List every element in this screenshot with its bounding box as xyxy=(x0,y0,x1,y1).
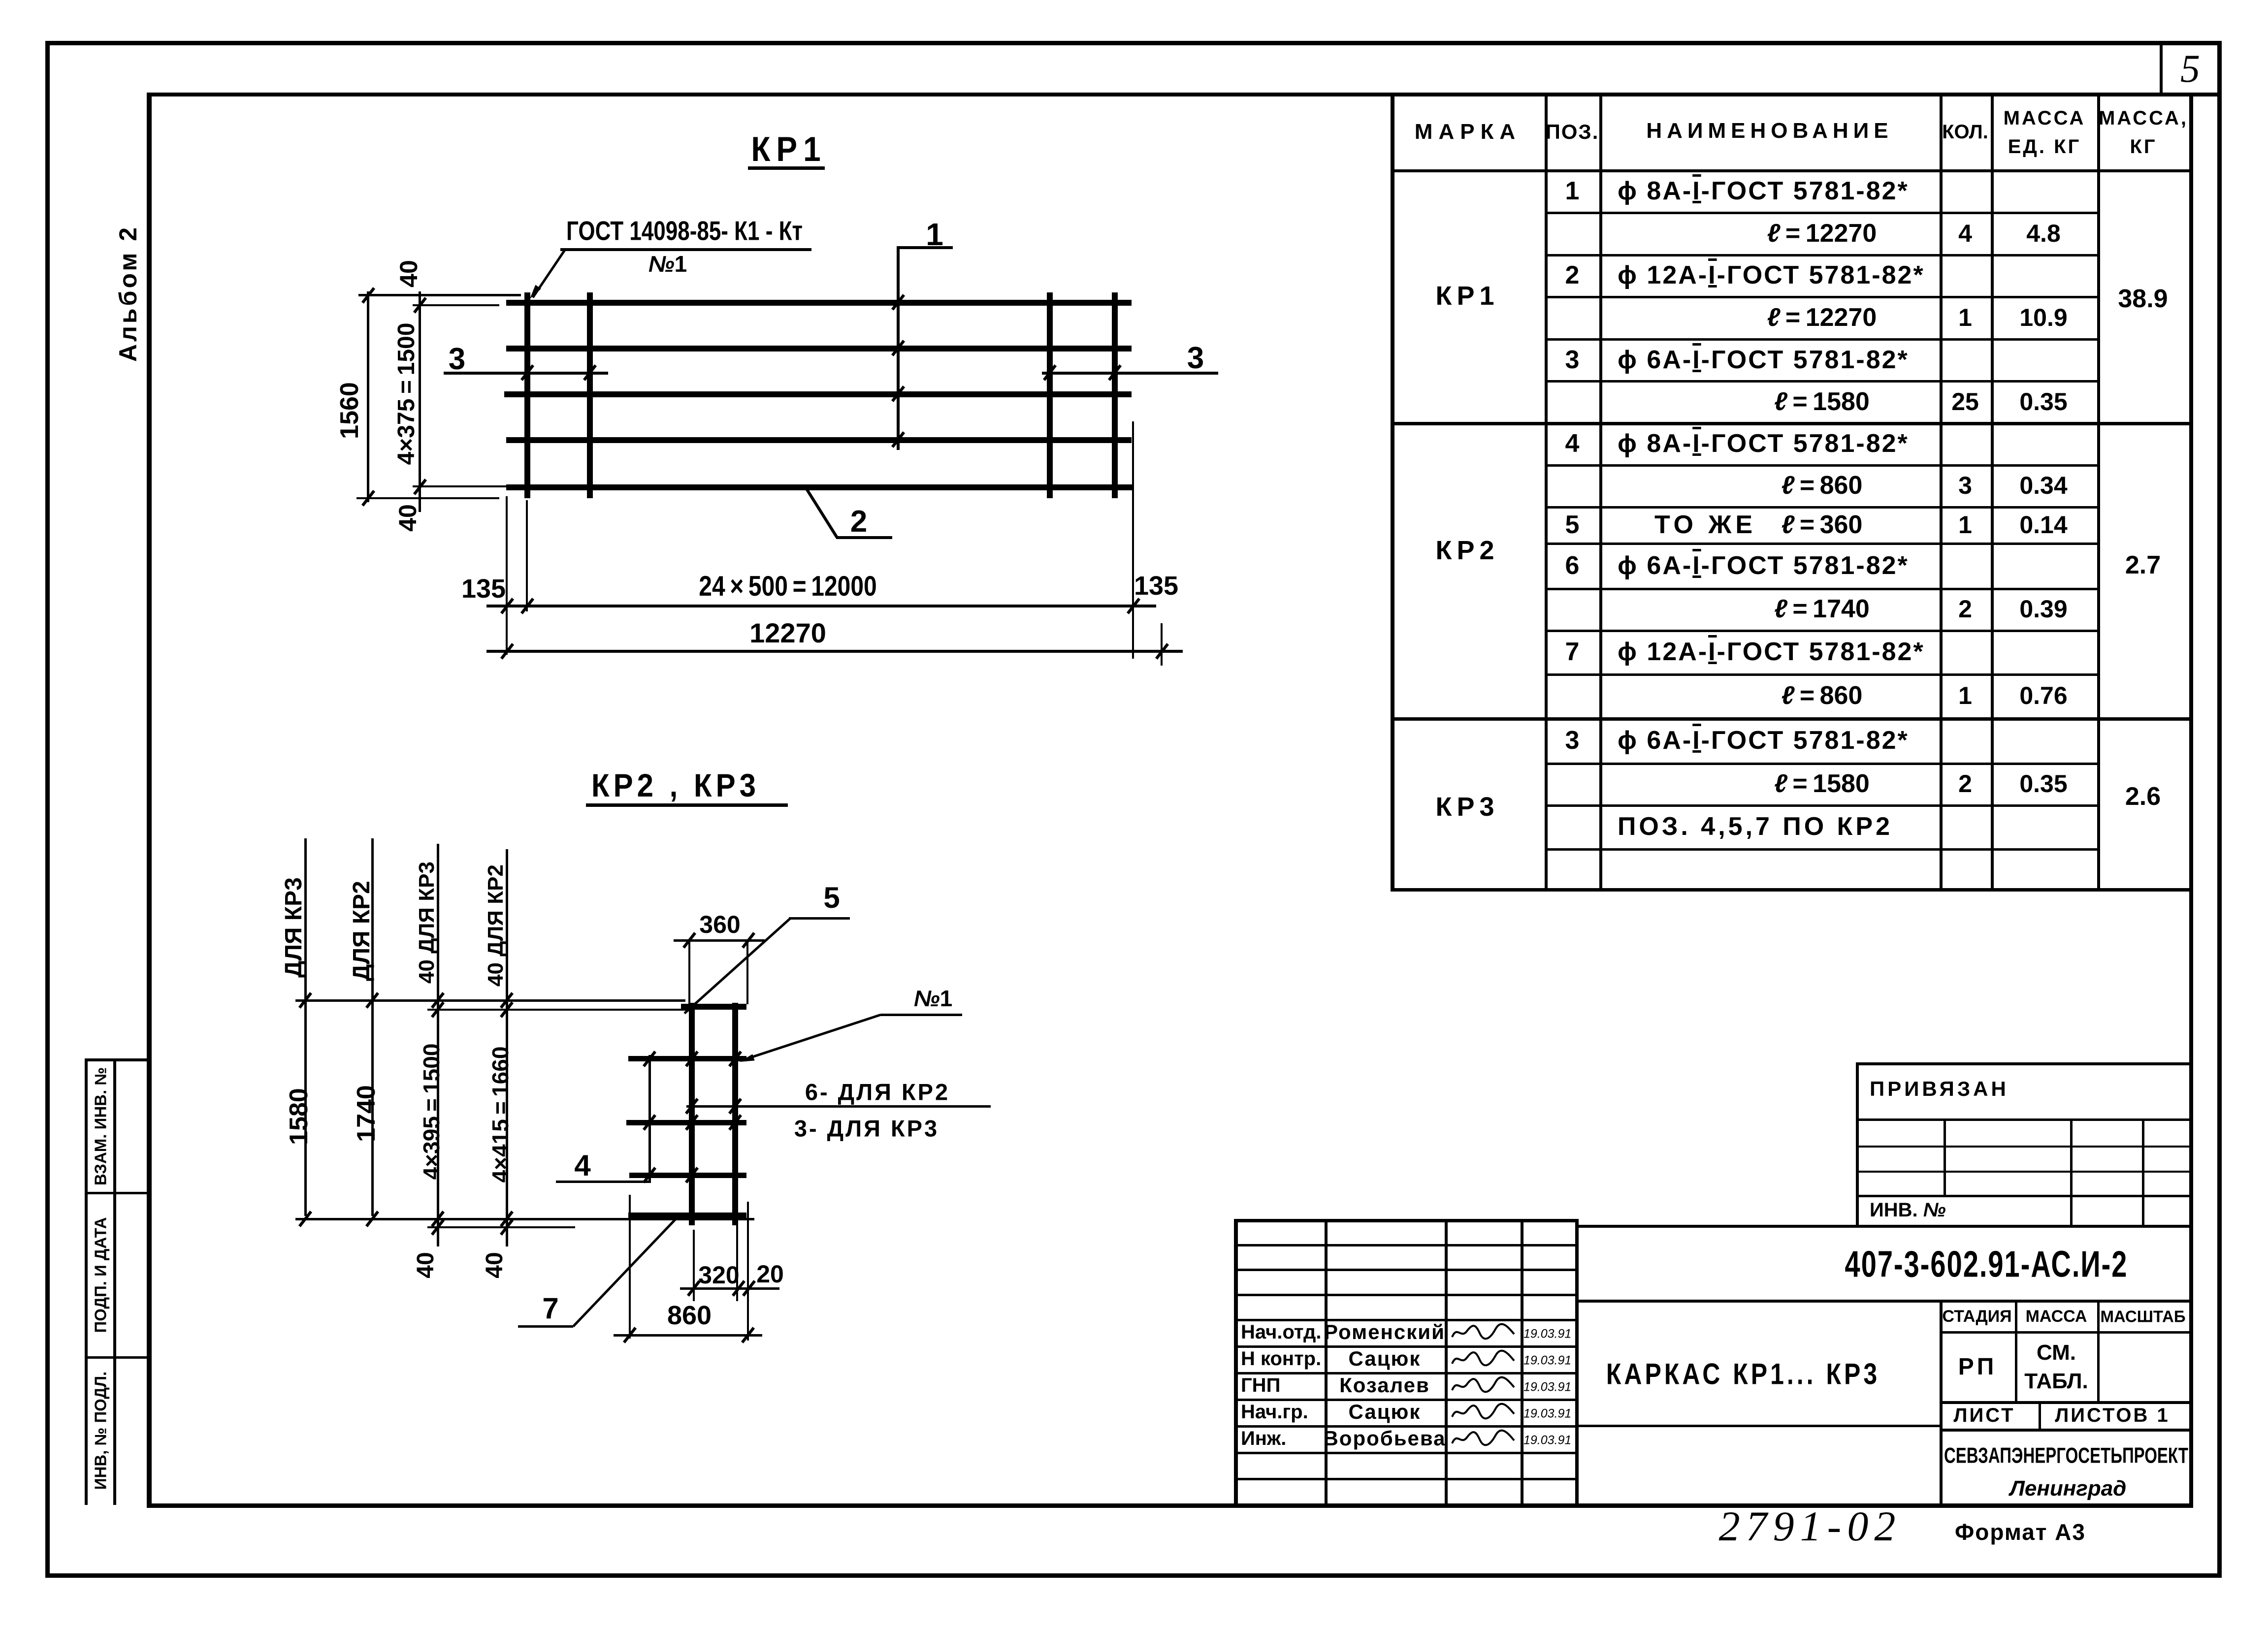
callout 6 dlya KP2 xyxy=(805,1081,950,1104)
outer border left xyxy=(45,41,50,1578)
callout 5 bar xyxy=(789,917,850,920)
callout 1 tick c xyxy=(891,385,905,402)
row1 poz xyxy=(1565,178,1580,204)
dim text 20 xyxy=(756,1262,784,1286)
sig row line 9 xyxy=(1234,1478,1575,1480)
dim 860 tick a xyxy=(623,1327,637,1343)
table KP2 row line 1 xyxy=(1545,506,2099,509)
KP2 ext vert 360 a xyxy=(688,939,690,1004)
row15 len xyxy=(1774,771,1870,797)
KP1 dim line 12000 xyxy=(486,605,1156,607)
table KP3 row line 0 xyxy=(1545,763,2099,765)
KP2 cage tick c1R xyxy=(728,1051,742,1067)
table KP3 row line 1 xyxy=(1545,804,2099,807)
table bottom edge xyxy=(1391,888,2191,892)
dim text 4x415 xyxy=(489,1047,512,1183)
KP1 massa total xyxy=(2118,286,2168,312)
dim text 40 top xyxy=(396,260,421,287)
table KP2 row line 5 xyxy=(1545,673,2099,676)
KP1 bottom extension line 1 xyxy=(413,485,508,487)
sig row line 1 xyxy=(1234,1269,1575,1271)
privyazan label xyxy=(1870,1079,2009,1099)
sig row line 3 xyxy=(1234,1319,1575,1321)
row9 kol xyxy=(1958,512,1972,537)
sheet number box divider xyxy=(2160,43,2163,96)
row9 massa xyxy=(2019,512,2067,537)
KP2 KP3 title xyxy=(591,769,760,802)
dim 320 tick b xyxy=(732,1280,745,1297)
table KP2 row line 0 xyxy=(1545,464,2099,467)
dim text 135 left xyxy=(461,575,506,602)
GOST leader xyxy=(532,249,566,298)
row4 massa xyxy=(2019,305,2067,330)
callout 7 leader diagonal xyxy=(572,1218,676,1327)
KP1 title underline xyxy=(748,166,825,170)
dim text 320 xyxy=(698,1263,739,1287)
callout 3 left tick a xyxy=(520,364,534,381)
dim 4x375 top tick xyxy=(413,297,427,314)
header Naimenovanie xyxy=(1646,120,1893,142)
KP1 long bar 4 xyxy=(506,437,1132,443)
label podp i data xyxy=(93,1217,109,1333)
dim 1560 bottom tick xyxy=(361,490,375,507)
KP2 cage tick c4L xyxy=(685,1167,699,1183)
callout 4 line xyxy=(648,1055,651,1183)
title massa col left xyxy=(2015,1300,2017,1403)
KP1 cross bar c xyxy=(1047,292,1053,498)
sig col divider 1 xyxy=(1325,1219,1328,1507)
dim 1560 top tick xyxy=(361,287,375,304)
table col divider massa-massatot xyxy=(2097,93,2100,891)
dim text 4x375=1500 xyxy=(395,323,419,465)
callout N1 arrowhead xyxy=(739,1054,755,1065)
KP2 bottom tick 5 xyxy=(500,1219,514,1236)
label massa xyxy=(2026,1308,2087,1325)
callout 1 tick b xyxy=(891,340,905,356)
sig name 1 xyxy=(1349,1348,1421,1369)
margin block column divider xyxy=(113,1058,116,1505)
header Marka xyxy=(1415,121,1521,143)
KP1 dim line 4x375 xyxy=(419,291,421,512)
drawing title Karkas xyxy=(1606,1359,1880,1389)
callout 1 tick a xyxy=(891,294,905,311)
table KP1 row line 3 xyxy=(1545,338,2099,341)
KP2 top tick 0 xyxy=(298,992,312,1009)
callout N1 text xyxy=(914,987,952,1010)
callout 4 tick c xyxy=(643,1167,656,1183)
KP2 top tick 1 xyxy=(365,992,379,1009)
KP1 bottom ext left a xyxy=(506,496,508,655)
callout 3 left line xyxy=(444,372,608,375)
callout 2 leader bar xyxy=(836,536,892,539)
outer border top xyxy=(45,41,2222,45)
sig row line 7 xyxy=(1234,1425,1575,1428)
GOST label underline xyxy=(560,248,811,251)
KP2 cross bar 2 tick b xyxy=(728,1098,742,1115)
row11 kol xyxy=(1958,597,1972,621)
title number cell bottom xyxy=(1575,1300,2191,1303)
row6 len xyxy=(1774,389,1870,415)
header Massa ed 1 xyxy=(2004,108,2086,128)
KP2 ext vert c xyxy=(736,1221,738,1301)
callout 1 line xyxy=(897,246,900,450)
row8 kol xyxy=(1958,473,1972,498)
signature scribble 0 xyxy=(1450,1320,1517,1344)
KP2 cross bar 4 xyxy=(629,1173,746,1178)
KP2 ext vert a xyxy=(629,1195,631,1339)
KP2 top tick 3 xyxy=(431,1001,445,1018)
KP2 vertical bar left (N1) xyxy=(689,1003,695,1225)
KP1 cross bar b xyxy=(587,292,593,498)
album 2 label xyxy=(116,225,140,362)
privyazan left edge xyxy=(1856,1062,1859,1228)
callout 4 tick a xyxy=(643,1051,656,1067)
label vzam inv xyxy=(93,1067,109,1185)
label masshtab xyxy=(2100,1309,2185,1325)
row4 kol xyxy=(1958,305,1972,330)
KP2 cage tick c1L xyxy=(685,1051,699,1067)
KP1 top extension line 2 xyxy=(413,304,499,306)
KP2 bottom tick 2 xyxy=(431,1211,445,1227)
dim text 1740 xyxy=(354,1085,379,1142)
callout 4 digit xyxy=(574,1151,590,1181)
KP2 bottom tick 4 xyxy=(500,1211,514,1227)
callout 1 digit xyxy=(926,219,943,250)
title karkas cell bottom xyxy=(1575,1425,1940,1427)
row9 name xyxy=(1654,512,1756,538)
KP2 bottom extension line 1 xyxy=(295,1218,754,1220)
row13 kol xyxy=(1958,683,1972,708)
title masshtab col left xyxy=(2097,1300,2100,1403)
sig col divider 2 xyxy=(1445,1219,1448,1507)
sig row line 6 xyxy=(1234,1399,1575,1401)
title stadiya header bottom xyxy=(1940,1331,2192,1334)
callout 3 right digit xyxy=(1187,343,1204,374)
inner frame bottom xyxy=(147,1503,2193,1508)
dim text 860 xyxy=(667,1302,712,1329)
privyazan row line 1 xyxy=(1856,1146,2192,1148)
dim 860 tick b xyxy=(741,1327,755,1343)
KP1 bottom ext left b xyxy=(526,500,528,611)
callout 1 bar xyxy=(897,246,953,249)
value sm xyxy=(2037,1342,2076,1364)
label list xyxy=(1953,1405,2015,1425)
callout 1 tick d xyxy=(891,431,905,448)
callout 2 leader diagonal xyxy=(804,486,838,538)
KP1 dim line 1560 xyxy=(367,291,369,502)
sig role 4 xyxy=(1241,1429,1286,1448)
KP2 dim line 320-20 xyxy=(680,1287,779,1290)
callout 5 leader diagonal xyxy=(683,918,791,1014)
KP2 dim line dlya KP3 xyxy=(304,838,307,1216)
label 40 dlya KP2 xyxy=(485,864,507,987)
inner frame right xyxy=(2189,93,2193,1508)
row12 poz xyxy=(1565,639,1580,665)
callout 3 right tick a xyxy=(1043,364,1057,381)
callout 3 left tick b xyxy=(583,364,597,381)
privyazan col divider 2 xyxy=(2070,1118,2073,1228)
dim text 4x395 xyxy=(420,1044,443,1180)
KP3 massa total xyxy=(2125,784,2161,809)
org name xyxy=(1944,1444,2188,1467)
KP1 top extension line 1 xyxy=(358,294,521,296)
sig col divider 3 xyxy=(1521,1219,1523,1507)
sig role 3 xyxy=(1241,1402,1308,1422)
KP1 long bar 3 xyxy=(504,391,1132,397)
dim 12000 tick a xyxy=(500,598,514,614)
KP2 title underline xyxy=(586,803,788,807)
KP2 top tick 5 xyxy=(500,1001,514,1018)
dim 4x375 bottom tick xyxy=(413,479,427,495)
privyazan row line 2 xyxy=(1856,1171,2192,1173)
sig row line 4 xyxy=(1234,1345,1575,1348)
KP2 ext vert b xyxy=(693,1230,695,1301)
sig role 2 xyxy=(1241,1375,1280,1395)
sig role 1 xyxy=(1241,1349,1321,1369)
row8 len xyxy=(1782,473,1863,498)
KP2 marka xyxy=(1435,537,1499,564)
label 40 dlya KP3 xyxy=(416,862,438,984)
row4 len xyxy=(1767,305,1877,330)
KP2 ext vert d xyxy=(747,1202,749,1341)
signature scribble 3 xyxy=(1450,1400,1517,1424)
sig row line 2 xyxy=(1234,1294,1575,1296)
dim 12270 tick a xyxy=(500,643,514,660)
row8 massa xyxy=(2019,473,2067,498)
callout 7 bar xyxy=(518,1325,573,1328)
row13 massa xyxy=(2019,683,2067,708)
margin block divider 2 xyxy=(85,1356,147,1359)
row9 poz xyxy=(1565,512,1580,538)
table col divider marka-poz xyxy=(1545,93,1548,891)
callout 2 digit xyxy=(850,507,867,537)
title list col divider xyxy=(2039,1401,2041,1431)
dim text 1580 xyxy=(286,1088,312,1145)
dim 360 tick b xyxy=(742,932,755,949)
org city xyxy=(2010,1478,2127,1500)
table KP1 row line 2 xyxy=(1545,296,2099,298)
table col divider poz-name xyxy=(1599,93,1602,891)
dim text 40 bottom b xyxy=(483,1252,507,1278)
row10 poz xyxy=(1565,553,1580,578)
KP2 cross bar 2 callout line xyxy=(686,1105,991,1108)
sig row line 5 xyxy=(1234,1372,1575,1374)
callout 3 left digit xyxy=(449,344,465,375)
row11 len xyxy=(1774,596,1870,622)
KP1 long bar 2 xyxy=(506,346,1132,351)
signature scribble 1 xyxy=(1450,1347,1517,1371)
KP2 bottom tick 0 xyxy=(298,1211,312,1227)
dim text 40 bottom xyxy=(395,504,420,532)
label dlya KP2 xyxy=(350,881,374,981)
row5 poz xyxy=(1565,347,1580,373)
callout 4 bar xyxy=(556,1181,649,1183)
table KP2 row line 3 xyxy=(1545,588,2099,590)
sig date 2 xyxy=(1523,1381,1571,1394)
row7 poz xyxy=(1565,431,1580,456)
sig row line 8 xyxy=(1234,1452,1575,1454)
privyazan col divider 1 xyxy=(1944,1118,1946,1197)
KP1 long bar 1 xyxy=(506,300,1132,306)
KP2 dim line 40 dlya KP2 xyxy=(506,849,508,1246)
table divider KP1-KP2 xyxy=(1391,422,2191,425)
header Massa ed 2 xyxy=(2008,137,2081,157)
row6 kol xyxy=(1951,389,1979,414)
table KP1 row line 0 xyxy=(1545,212,2099,214)
KP1 bottom ext right b xyxy=(1161,623,1163,666)
dim text 360 xyxy=(699,912,740,937)
privyazan row line 3 xyxy=(1856,1195,2192,1197)
row13 len xyxy=(1782,683,1863,708)
value tabl xyxy=(2024,1371,2088,1392)
row3 poz xyxy=(1565,262,1580,288)
callout 3 right tick b xyxy=(1108,364,1122,381)
table KP2 row line 4 xyxy=(1545,630,2099,632)
sig name 4 xyxy=(1323,1428,1446,1449)
dim 360 tick a xyxy=(682,932,696,949)
row2 len xyxy=(1767,221,1877,246)
table col divider kol-massa xyxy=(1991,93,1994,891)
weld mark N1 xyxy=(648,253,687,275)
sig row line 0 xyxy=(1234,1244,1575,1246)
KP2 cross bar 2 tick a xyxy=(685,1098,699,1115)
KP1 dim line 12270 xyxy=(486,650,1183,653)
signature scribble 2 xyxy=(1450,1373,1517,1397)
callout 3 right line xyxy=(1042,372,1218,375)
table divider KP2-KP3 xyxy=(1391,717,2191,721)
row7 name xyxy=(1618,431,1909,456)
outer border right xyxy=(2217,41,2222,1578)
sig date 3 xyxy=(1523,1408,1571,1420)
KP1 bottom extension line 2 xyxy=(356,497,499,499)
KP2 massa total xyxy=(2125,552,2161,578)
callout N1 leader diagonal xyxy=(741,1014,881,1062)
sig col divider 4 xyxy=(1575,1219,1579,1507)
row5 name xyxy=(1618,347,1909,373)
value RP xyxy=(1958,1355,1997,1379)
GOST weld label xyxy=(566,218,803,245)
row6 massa xyxy=(2019,389,2067,414)
KP2 cross bar 3 xyxy=(626,1120,746,1125)
label dlya KP3 xyxy=(282,877,306,978)
margin block divider 1 xyxy=(85,1192,147,1194)
title list row bottom xyxy=(1940,1429,2192,1432)
format A3 xyxy=(1955,1521,2086,1543)
callout 7 digit xyxy=(542,1294,558,1323)
label inv n podl xyxy=(93,1372,109,1490)
table KP3 row line 2 xyxy=(1545,848,2099,851)
table col divider name-kol xyxy=(1940,93,1943,891)
KP2 ext vert 360 b xyxy=(746,939,748,1004)
row11 massa xyxy=(2019,597,2067,621)
KP1 marka xyxy=(1435,283,1499,309)
label stadiya xyxy=(1942,1308,2011,1325)
row12 name xyxy=(1618,639,1925,665)
handwritten 2791-02 xyxy=(1719,1505,1902,1547)
dim 12270 tick b xyxy=(1155,643,1169,660)
KP2 dim line dlya KP2 xyxy=(371,838,374,1216)
inner frame top xyxy=(147,93,2220,96)
row1 name xyxy=(1618,178,1909,204)
row9 len xyxy=(1782,512,1863,538)
privyazan header bottom xyxy=(1856,1118,2192,1121)
KP2 cage tick c3R xyxy=(728,1114,742,1131)
dim 12000 tick c xyxy=(1127,598,1140,614)
sig name 0 xyxy=(1324,1322,1445,1342)
KP2 top bar poz 5 xyxy=(681,1004,746,1010)
callout 3 dlya KP3 xyxy=(794,1117,939,1140)
dim text 40 bottom a xyxy=(414,1252,438,1278)
header Poz xyxy=(1546,122,1599,142)
table KP1 row line 1 xyxy=(1545,254,2099,256)
KP1 cross bar d xyxy=(1112,292,1118,498)
dim 320 tick a xyxy=(687,1280,701,1297)
signature scribble 4 xyxy=(1450,1427,1517,1450)
KP2 vertical bar right (N1) xyxy=(732,1003,738,1225)
margin block outer edge xyxy=(85,1058,88,1505)
sig date 1 xyxy=(1523,1355,1571,1367)
row15 massa xyxy=(2019,771,2067,796)
KP2 bottom tick 3 xyxy=(431,1219,445,1236)
KP1 bottom ext right a xyxy=(1132,421,1134,659)
row14 poz xyxy=(1565,728,1580,753)
dim text 1560 xyxy=(337,382,362,439)
KP3 marka xyxy=(1435,794,1499,820)
row2 massa xyxy=(2026,221,2061,246)
dim text 135 right xyxy=(1134,573,1178,599)
header Kol xyxy=(1942,122,1988,142)
KP2 cage tick c3L xyxy=(685,1114,699,1131)
privyazan col divider 3 xyxy=(2142,1118,2144,1228)
dim text 24x500 xyxy=(699,573,876,601)
title block top left xyxy=(1234,1219,1577,1222)
privyazan inv n xyxy=(1870,1200,1946,1220)
table left edge xyxy=(1391,93,1394,891)
sheet number 5 xyxy=(2180,49,2200,89)
privyazan top edge xyxy=(1856,1062,2192,1065)
inner frame left xyxy=(147,93,152,1508)
KP2 bottom extension line 2 xyxy=(427,1226,575,1228)
row14 name xyxy=(1618,728,1909,753)
sig name 3 xyxy=(1349,1402,1421,1422)
table header bottom line xyxy=(1391,169,2191,172)
header Massa kg 2 xyxy=(2130,137,2157,157)
KP2 top extension line 2 xyxy=(427,1009,693,1011)
KP1 cross bar a xyxy=(524,292,530,498)
KP2 bottom bar xyxy=(628,1213,746,1218)
callout 5 digit xyxy=(823,883,840,913)
callout 4 tick b xyxy=(643,1114,656,1131)
table KP1 row line 4 xyxy=(1545,380,2099,383)
KP2 dim line 40 dlya KP3 xyxy=(437,844,439,1246)
dim text 12270 xyxy=(749,619,826,647)
title stadiya col left xyxy=(1940,1300,1943,1507)
table KP2 row line 2 xyxy=(1545,543,2099,545)
sig name 2 xyxy=(1339,1375,1430,1396)
row10 name xyxy=(1618,553,1909,578)
dim 12000 tick b xyxy=(520,598,534,614)
document number xyxy=(1845,1245,2128,1283)
dim 20 tick xyxy=(742,1280,756,1297)
title block number cell top xyxy=(1575,1225,2191,1228)
title block left edge xyxy=(1234,1219,1238,1507)
row2 kol xyxy=(1958,221,1972,246)
sig date 4 xyxy=(1523,1435,1571,1447)
KP2 cross bar 1 xyxy=(628,1056,746,1061)
sig role 0 xyxy=(1241,1322,1321,1342)
KP1 long bar 5 (poz 2) xyxy=(506,484,1133,490)
row3 name xyxy=(1618,262,1925,288)
